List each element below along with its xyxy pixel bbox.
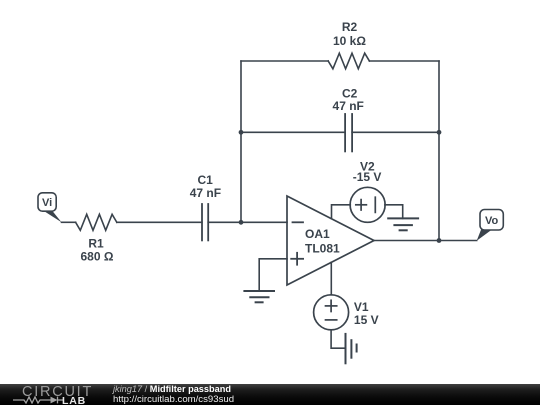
voltage source V1 bbox=[314, 295, 349, 330]
wire Vi to R1 bbox=[62, 221, 76, 223]
svg-text:V1: V1 bbox=[354, 300, 369, 314]
resistor R1 bbox=[76, 214, 117, 230]
wire R2 to right vertical bbox=[369, 60, 439, 62]
svg-text:47 nF: 47 nF bbox=[190, 186, 221, 200]
wire output bbox=[374, 240, 477, 242]
op-amp plus sign bbox=[291, 253, 303, 265]
wire V1 to ground bbox=[331, 330, 345, 348]
resistor R2 bbox=[328, 53, 369, 69]
svg-text:R1: R1 bbox=[88, 237, 104, 251]
wire C1 to op-amp inverting input bbox=[208, 221, 287, 223]
svg-text:R2: R2 bbox=[342, 20, 358, 34]
junction C1/feedback bbox=[239, 220, 244, 225]
CircuitLab logo bbox=[22, 384, 93, 400]
capacitor C2 bbox=[345, 114, 352, 151]
wire R1 to C1 bbox=[117, 221, 202, 223]
wire feedback left vertical bbox=[240, 61, 242, 222]
svg-text:10 kΩ: 10 kΩ bbox=[333, 34, 366, 48]
voltage source V2 bbox=[350, 187, 385, 222]
wire C2 right bbox=[352, 131, 439, 133]
wire op-amp V- pin to V1 bbox=[330, 262, 332, 295]
wire op-amp V+ pin to V2 bbox=[332, 205, 351, 219]
svg-text:47 nF: 47 nF bbox=[333, 99, 364, 113]
node Vo flag bbox=[477, 210, 504, 241]
wire V2 to ground bbox=[385, 205, 403, 219]
ground (op-amp + input) bbox=[244, 291, 274, 302]
svg-text:680 Ω: 680 Ω bbox=[81, 250, 114, 264]
junction output bbox=[437, 238, 442, 243]
wire C2 left bbox=[241, 131, 345, 133]
svg-text:Vo: Vo bbox=[485, 215, 499, 227]
footer text line 1 bbox=[113, 384, 231, 394]
junction C2 right bbox=[437, 130, 442, 135]
wire top left to R2 bbox=[241, 60, 328, 62]
junction C2 left bbox=[239, 130, 244, 135]
ground (V1, rotated) bbox=[346, 334, 357, 363]
svg-text:15 V: 15 V bbox=[354, 313, 379, 327]
svg-text:OA1: OA1 bbox=[305, 227, 330, 241]
junction dots bbox=[239, 130, 442, 243]
capacitor C1 bbox=[202, 204, 208, 240]
svg-text:Vi: Vi bbox=[42, 197, 52, 209]
svg-text:-15 V: -15 V bbox=[353, 170, 382, 184]
wire non-inverting input bbox=[259, 259, 287, 291]
node Vi flag bbox=[38, 193, 62, 223]
op-amp OA1 triangle bbox=[287, 196, 374, 285]
footer bar bbox=[0, 384, 540, 405]
ground (V2) bbox=[388, 218, 418, 230]
svg-text:TL081: TL081 bbox=[305, 242, 340, 256]
wire feedback right vertical bbox=[438, 61, 440, 241]
op-amp minus sign bbox=[293, 221, 304, 223]
footer text line 2 bbox=[113, 394, 234, 405]
